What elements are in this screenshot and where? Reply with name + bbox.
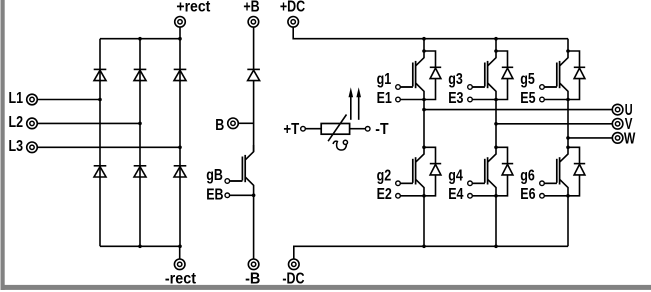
diode D1 rectifier upper leg x=100 — [94, 69, 107, 80]
svg-text:-rect: -rect — [165, 270, 196, 288]
wire Q2 emitter to bottom bus — [423, 196, 425, 247]
wire E3 lead — [472, 99, 496, 101]
transistor Q3 with freewheel diode D13 — [488, 51, 496, 66]
wire rectifier +rect top bus — [100, 38, 180, 40]
transistor Q1 with freewheel diode D11 — [416, 51, 424, 66]
wire +B to brake diode — [253, 27, 255, 69]
svg-text:g6: g6 — [520, 166, 535, 184]
wire L1 input — [37, 99, 100, 101]
svg-text:+T: +T — [283, 121, 299, 138]
wire g5 lead — [544, 86, 556, 88]
svg-text:L3: L3 — [9, 137, 24, 155]
svg-text:B: B — [215, 116, 224, 134]
node L3 junction — [178, 146, 182, 150]
node L2 junction — [138, 122, 142, 126]
terminal L1 — [27, 94, 38, 105]
pin g3 contact — [468, 85, 473, 90]
svg-text:+rect: +rect — [176, 0, 210, 16]
wire rectifier leg 3 — [179, 39, 181, 247]
diode D2 rectifier lower leg x=100 — [94, 166, 107, 177]
node junction top bus leg3 — [178, 37, 182, 41]
terminal L3 — [27, 142, 38, 153]
wire E4 lead — [472, 195, 496, 197]
svg-text:E5: E5 — [520, 89, 535, 107]
svg-text:gB: gB — [206, 166, 223, 184]
wire -T lead — [350, 128, 366, 130]
pin E4 contact — [468, 194, 473, 199]
thermistor slash — [328, 115, 346, 142]
wire top bus to Q3 split — [495, 39, 497, 51]
pin -T contact — [365, 127, 370, 132]
wire phase leg 2 midsection — [495, 100, 497, 148]
wire g2 lead — [400, 182, 412, 184]
svg-text:g4: g4 — [448, 166, 463, 184]
svg-text:+DC: +DC — [280, 0, 305, 15]
pin +T contact — [301, 126, 306, 131]
wire bottom bus corner up leg3 — [567, 196, 569, 247]
wire -rect to bottom bus — [179, 246, 181, 259]
pin E3 contact — [468, 97, 473, 102]
svg-text:L1: L1 — [9, 89, 24, 107]
wire rectifier leg 1 — [99, 39, 101, 247]
wire top bus corner down leg3 — [567, 39, 569, 51]
wire Q4 emitter to bottom bus — [495, 196, 497, 247]
diode D7 brake chopper — [247, 69, 260, 80]
transistor Q7 brake IGBT — [245, 145, 253, 160]
wire E1 lead — [400, 99, 424, 101]
diode D3 rectifier upper leg x=140 — [134, 69, 147, 80]
wire L2 input — [37, 122, 140, 124]
terminal +rect — [175, 17, 186, 28]
node junction bottom bus leg3 — [178, 245, 182, 249]
svg-text:g2: g2 — [377, 166, 392, 184]
node L1 junction — [98, 98, 102, 102]
arrow up 2 — [356, 87, 361, 120]
terminal +B — [248, 17, 259, 28]
node top bus junction Q1 — [422, 37, 426, 41]
wire phase leg 3 midsection — [567, 100, 569, 148]
svg-text:g3: g3 — [448, 70, 463, 88]
svg-text:-B: -B — [245, 270, 260, 288]
node V tap junction — [494, 122, 498, 126]
node top bus junction Q3 — [494, 37, 498, 41]
svg-text:E2: E2 — [377, 185, 392, 203]
transistor Q6 with freewheel diode D16 — [560, 147, 568, 162]
thermistor theta symbol — [333, 141, 346, 150]
wire phase leg 1 midsection — [423, 100, 425, 148]
terminal V — [612, 119, 623, 130]
pin g1 contact — [396, 85, 401, 90]
wire rectifier -rect bottom bus — [100, 245, 180, 247]
node EB junction — [252, 194, 256, 198]
node bottom bus junction Q4 — [494, 245, 498, 249]
node junction bottom bus leg2 — [138, 245, 142, 249]
pin E2 contact — [396, 194, 401, 199]
arrow up 1 — [349, 87, 354, 120]
node W tap junction — [566, 136, 570, 140]
svg-text:E6: E6 — [520, 185, 535, 203]
svg-text:+B: +B — [243, 0, 259, 15]
wire L3 input — [37, 146, 180, 148]
wire rectifier leg 2 — [139, 39, 141, 247]
pin g6 contact — [540, 181, 545, 186]
wire +DC rail — [293, 27, 568, 39]
thermistor R-NTC body — [321, 124, 349, 135]
wire g4 lead — [472, 182, 484, 184]
pin EB contact — [225, 193, 230, 198]
wire g1 lead — [400, 86, 412, 88]
wire +rect to top bus — [179, 27, 181, 39]
wire phase output W — [568, 137, 612, 139]
wire g6 lead — [544, 182, 556, 184]
pin E1 contact — [396, 97, 401, 102]
svg-text:-DC: -DC — [282, 269, 304, 287]
svg-text:EB: EB — [206, 185, 223, 203]
pin g2 contact — [396, 181, 401, 186]
wire brake emitter to -B — [253, 194, 255, 259]
terminal W — [612, 133, 623, 144]
wire E6 lead — [544, 195, 568, 197]
wire E5 lead — [544, 99, 568, 101]
terminal B — [228, 118, 239, 129]
svg-text:L2: L2 — [9, 113, 24, 131]
wire -DC rail — [294, 246, 568, 259]
terminal -B — [248, 259, 259, 270]
wire E2 lead — [400, 195, 424, 197]
terminal -rect — [174, 259, 185, 270]
wire top bus to Q1 split — [423, 39, 425, 51]
pin E5 contact — [540, 97, 545, 102]
transistor Q5 with freewheel diode D15 — [560, 51, 568, 66]
wire +T lead — [305, 128, 321, 130]
node bottom bus junction Q2 — [422, 245, 426, 249]
wire EB lead — [230, 194, 254, 196]
svg-text:E1: E1 — [377, 89, 392, 107]
wire brake diode to IGBT collector — [253, 81, 255, 152]
node junction top bus leg2 — [138, 37, 142, 41]
svg-text:W: W — [624, 129, 636, 147]
terminal +DC — [288, 17, 299, 28]
wire B terminal lead — [238, 122, 253, 124]
svg-text:g1: g1 — [377, 70, 392, 88]
pin gB contact — [225, 179, 230, 184]
svg-text:E4: E4 — [448, 185, 463, 203]
pin g4 contact — [468, 181, 473, 186]
svg-text:g5: g5 — [520, 70, 535, 88]
transistor Q4 with freewheel diode D14 — [488, 147, 496, 162]
diode D5 rectifier upper leg x=180 — [174, 69, 187, 80]
terminal L2 — [27, 118, 38, 129]
bottom gray border bar — [1, 285, 651, 290]
pin g5 contact — [540, 85, 545, 90]
terminal -DC — [289, 259, 300, 270]
diode D4 rectifier lower leg x=140 — [134, 166, 147, 177]
diode D6 rectifier lower leg x=180 — [174, 166, 187, 177]
wire phase output V — [496, 123, 612, 125]
wire gB lead — [230, 180, 243, 182]
terminal U — [612, 104, 623, 115]
wire g3 lead — [472, 86, 484, 88]
pin E6 contact — [540, 194, 545, 199]
left gray border bar — [1, 0, 5, 290]
wire phase output U — [424, 109, 612, 111]
svg-text:-T: -T — [375, 121, 388, 138]
transistor Q2 with freewheel diode D12 — [416, 147, 424, 162]
node U tap junction — [422, 108, 426, 112]
svg-text:E3: E3 — [448, 89, 463, 107]
